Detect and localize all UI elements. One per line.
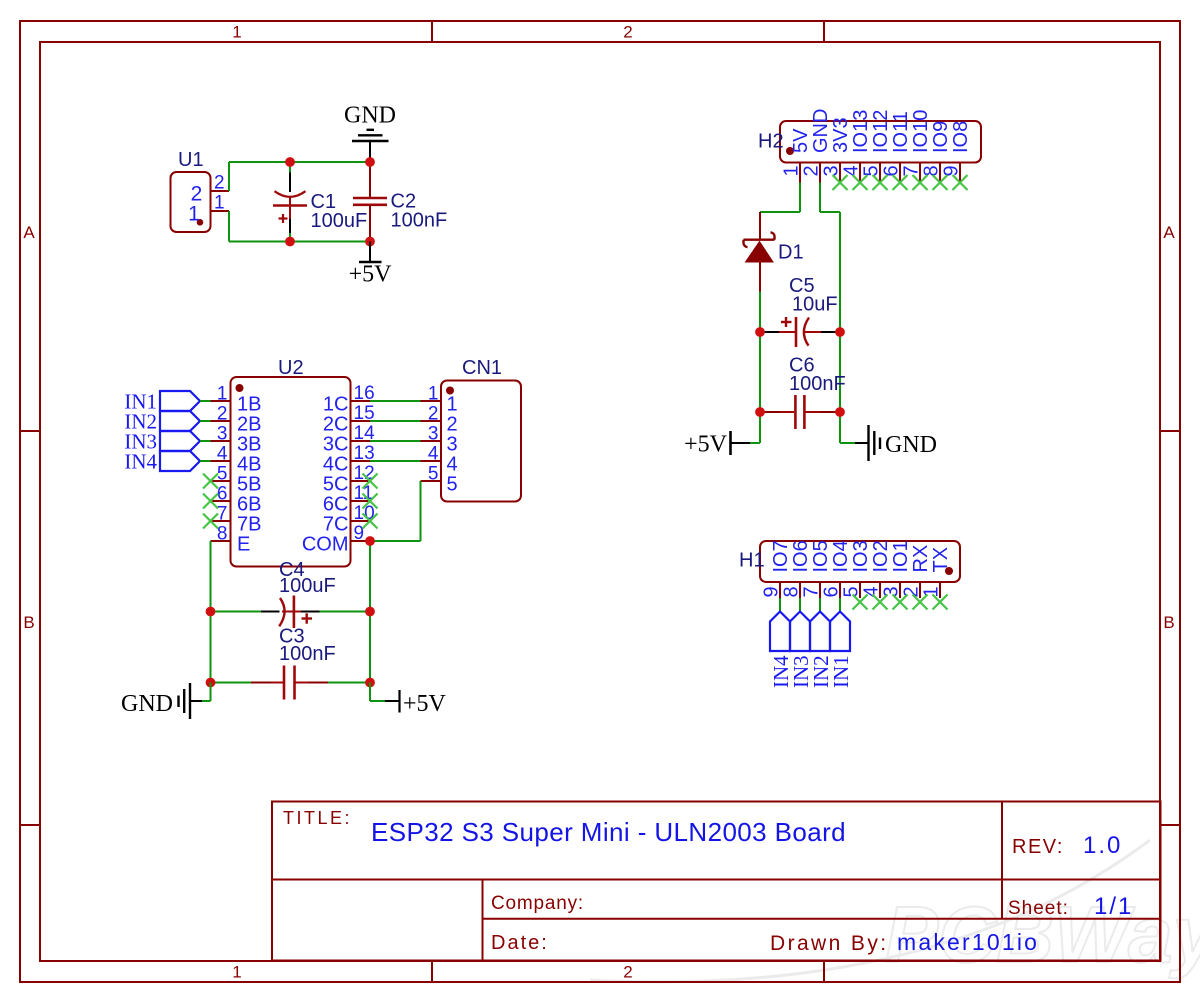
svg-text:IO11: IO11 (890, 111, 912, 153)
svg-text:100uF: 100uF (279, 575, 336, 597)
connector CN1 (421, 357, 522, 502)
wire GND rail top (229, 161, 370, 163)
connector U1 (171, 149, 230, 232)
capacitor C4 100uF (211, 559, 371, 628)
svg-text:6B: 6B (237, 494, 261, 516)
svg-text:1: 1 (447, 394, 458, 416)
svg-text:7: 7 (217, 504, 228, 525)
svg-text:10uF: 10uF (792, 294, 838, 316)
svg-text:IO3: IO3 (850, 540, 872, 572)
svg-text:+5V: +5V (684, 432, 728, 458)
svg-text:IO1: IO1 (890, 540, 912, 572)
header H1 (739, 540, 960, 598)
wire +5V rail bottom (229, 241, 370, 243)
svg-text:1: 1 (921, 586, 943, 597)
junction dots U2 group (206, 536, 375, 687)
svg-text:IO4: IO4 (830, 540, 852, 572)
svg-text:5: 5 (428, 464, 439, 485)
power symbol +5V right (684, 431, 760, 458)
wire H2 pin1 to D1 rail (760, 183, 800, 213)
svg-text:100nF: 100nF (789, 373, 846, 395)
svg-text:3B: 3B (237, 434, 261, 456)
svg-text:U1: U1 (178, 149, 204, 171)
power symbol +5V bottom-right (370, 683, 447, 718)
svg-text:2: 2 (901, 586, 923, 597)
svg-text:8: 8 (781, 586, 803, 597)
svg-text:9: 9 (354, 523, 365, 544)
svg-text:1.0: 1.0 (1083, 832, 1122, 859)
svg-text:1/1: 1/1 (1094, 893, 1133, 920)
svg-text:H2: H2 (758, 131, 784, 153)
svg-text:IO8: IO8 (950, 121, 972, 153)
svg-text:IN4: IN4 (124, 450, 157, 474)
svg-text:1: 1 (217, 384, 228, 405)
ground symbol GND right (840, 425, 937, 461)
svg-text:7B: 7B (237, 514, 261, 536)
svg-text:2: 2 (217, 404, 228, 425)
svg-text:3: 3 (881, 586, 903, 597)
svg-text:5V: 5V (790, 128, 812, 153)
title block texts (283, 808, 1133, 955)
capacitor C2 100nF (353, 162, 447, 242)
svg-text:1: 1 (232, 23, 241, 42)
svg-text:B: B (1163, 613, 1174, 632)
svg-text:2B: 2B (237, 414, 261, 436)
svg-text:maker101io: maker101io (897, 929, 1039, 955)
svg-text:2: 2 (623, 23, 632, 42)
svg-text:4B: 4B (237, 454, 261, 476)
svg-text:7: 7 (901, 165, 923, 176)
svg-text:1: 1 (188, 203, 200, 226)
svg-text:2: 2 (623, 963, 632, 982)
svg-text:2: 2 (428, 404, 439, 425)
no-connect marks H1 pins 5-1 (853, 595, 948, 610)
svg-text:A: A (1163, 223, 1175, 242)
capacitor C3 100nF (211, 626, 371, 700)
svg-text:3V3: 3V3 (830, 117, 852, 153)
watermark PCBWay (590, 840, 1200, 982)
svg-text:ESP32 S3 Super Mini - ULN2003: ESP32 S3 Super Mini - ULN2003 Board (371, 817, 846, 847)
svg-text:1: 1 (232, 963, 241, 982)
wires U2 outputs to CN1 (370, 401, 421, 461)
svg-text:TX: TX (930, 547, 952, 573)
svg-text:2: 2 (447, 414, 458, 436)
svg-text:9: 9 (941, 165, 963, 176)
svg-text:3: 3 (428, 424, 439, 445)
svg-text:8: 8 (217, 524, 228, 545)
svg-text:GND: GND (810, 109, 832, 153)
svg-text:IO6: IO6 (790, 540, 812, 572)
svg-text:1: 1 (214, 193, 225, 214)
diode D1 schottky (744, 212, 804, 292)
no-connect marks H2 pins 3-9 (833, 175, 968, 190)
svg-text:CN1: CN1 (462, 357, 502, 379)
svg-text:5C: 5C (323, 474, 349, 496)
svg-text:6: 6 (821, 586, 843, 597)
svg-text:5B: 5B (237, 474, 261, 496)
capacitor C6 100nF (760, 355, 846, 430)
svg-text:7: 7 (801, 586, 823, 597)
wire +5V rail right section (759, 292, 761, 444)
svg-text:GND: GND (344, 103, 396, 129)
svg-text:E: E (237, 534, 250, 556)
svg-text:REV:: REV: (1012, 836, 1064, 858)
svg-text:COM: COM (302, 534, 349, 556)
svg-text:IO2: IO2 (870, 540, 892, 572)
svg-text:IO7: IO7 (770, 540, 792, 572)
svg-text:6C: 6C (323, 494, 349, 516)
wire H2 pin2 to GND rail (820, 183, 840, 444)
svg-text:3: 3 (217, 424, 228, 445)
svg-text:A: A (23, 223, 35, 242)
svg-text:5: 5 (861, 165, 883, 176)
svg-text:4: 4 (447, 454, 458, 476)
svg-text:4: 4 (428, 444, 439, 465)
svg-text:3: 3 (447, 434, 458, 456)
svg-text:Date:: Date: (491, 932, 549, 954)
svg-text:U2: U2 (278, 357, 304, 379)
capacitor C1 100uF (273, 162, 367, 242)
svg-text:100uF: 100uF (311, 210, 368, 232)
svg-text:GND: GND (121, 691, 173, 717)
svg-text:IO10: IO10 (910, 110, 932, 153)
wire COM to CN1 pin5 (370, 481, 421, 541)
wire COM rail down-right (369, 541, 371, 701)
net flags IN4-IN1 bottom (769, 598, 853, 688)
svg-text:2: 2 (801, 165, 823, 176)
header H2 (758, 109, 981, 183)
svg-text:4: 4 (861, 586, 883, 597)
svg-text:Sheet:: Sheet: (1008, 898, 1069, 919)
svg-text:B: B (23, 613, 34, 632)
svg-text:7C: 7C (323, 514, 349, 536)
svg-text:IN1: IN1 (829, 655, 853, 688)
ground symbol GND top (344, 103, 396, 163)
svg-text:6: 6 (217, 484, 228, 505)
svg-text:3: 3 (821, 165, 843, 176)
svg-text:3C: 3C (323, 434, 349, 456)
svg-text:5: 5 (447, 474, 458, 496)
svg-text:2C: 2C (323, 414, 349, 436)
svg-text:IO13: IO13 (850, 110, 872, 153)
svg-text:1B: 1B (237, 394, 261, 416)
svg-text:GND: GND (885, 432, 937, 458)
svg-text:D1: D1 (778, 242, 804, 264)
junction dots H2 group (755, 327, 845, 417)
svg-text:IO9: IO9 (930, 121, 952, 153)
svg-text:100nF: 100nF (279, 643, 336, 665)
svg-text:IO5: IO5 (810, 540, 832, 572)
wire U1 to rails (228, 162, 230, 242)
svg-text:1: 1 (428, 384, 439, 405)
svg-text:2: 2 (214, 173, 225, 194)
svg-text:4: 4 (217, 444, 228, 465)
svg-text:1C: 1C (323, 394, 349, 416)
svg-text:IO12: IO12 (870, 110, 892, 153)
svg-text:1: 1 (781, 165, 803, 176)
svg-text:5: 5 (217, 464, 228, 485)
svg-text:+5V: +5V (349, 262, 393, 288)
svg-text:TITLE:: TITLE: (283, 808, 352, 828)
IC U2 ULN2003 (211, 357, 376, 567)
svg-text:+5V: +5V (403, 691, 447, 717)
junction dots top-left group (285, 157, 375, 246)
power symbol +5V top-left (349, 242, 393, 288)
svg-text:RX: RX (910, 545, 932, 573)
capacitor C5 10uF (760, 275, 840, 347)
svg-text:100nF: 100nF (391, 210, 448, 232)
title block grid (272, 802, 1161, 961)
net flags IN1-IN4 left (124, 390, 210, 474)
svg-text:H1: H1 (739, 550, 765, 572)
no-connect marks U2 pins 5,6,7 (203, 474, 218, 529)
svg-text:5: 5 (841, 586, 863, 597)
svg-text:9: 9 (761, 586, 783, 597)
svg-text:Drawn By:: Drawn By: (770, 932, 888, 955)
no-connect marks U2 pins 12,11,10 (363, 474, 378, 529)
ground symbol GND bottom-left (121, 683, 211, 720)
svg-text:6: 6 (881, 165, 903, 176)
svg-text:4: 4 (841, 165, 863, 176)
svg-text:8: 8 (921, 165, 943, 176)
svg-text:4C: 4C (323, 454, 349, 476)
svg-text:Company:: Company: (491, 893, 584, 914)
wire E rail down-left (210, 541, 212, 701)
